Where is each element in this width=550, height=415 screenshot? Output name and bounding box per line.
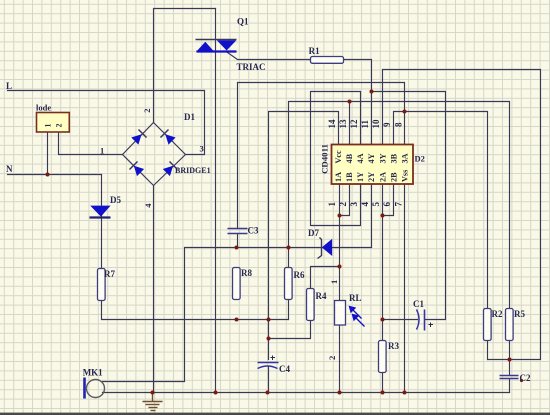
- svg-text:4Y: 4Y: [367, 153, 376, 163]
- wire L line to bridge pin 3: [8, 91, 205, 155]
- capacitor C2: [500, 376, 519, 379]
- bottom window edge: [0, 413, 550, 415]
- wire pin 14 over and down to C4: [269, 112, 339, 360]
- wire C3 bottom to sound junction: [237, 234, 239, 248]
- wire R5 bottom lead: [509, 341, 511, 360]
- microphone MK1: [85, 378, 105, 399]
- wire pin 10 up over right side down to R2 R5 bottoms: [383, 70, 541, 360]
- svg-text:11: 11: [360, 119, 370, 128]
- wire pin 2 tie to pin 1: [340, 185, 350, 216]
- svg-text:C1: C1: [413, 299, 424, 309]
- wire R1 right to pin 11 junction: [344, 60, 372, 92]
- svg-text:7: 7: [393, 202, 403, 207]
- wire triac gate to R1: [228, 53, 311, 60]
- wire pin 3 to pin 12 loop: [311, 92, 361, 226]
- svg-text:R1: R1: [309, 46, 320, 56]
- transistor Q1 triac: [196, 40, 237, 53]
- wire R6 top lead to D7 junction: [288, 248, 290, 268]
- wire pin 7 down to bus: [404, 185, 406, 393]
- wire lode pin2 to bridge pin 1: [59, 132, 123, 155]
- svg-text:3: 3: [200, 144, 204, 154]
- wire N line: [8, 174, 102, 176]
- resistor R5: [506, 309, 514, 341]
- svg-text:R5: R5: [514, 309, 525, 319]
- svg-text:L: L: [6, 81, 12, 91]
- op-amp U1 CD4011 box: [332, 145, 414, 185]
- diode D7 zener: [318, 238, 333, 259]
- wire R7 bottom to Vcc rail: [102, 301, 289, 320]
- wire mic bottom to bus: [102, 392, 104, 394]
- wire pin 1 down to RL top: [339, 185, 341, 301]
- bridge D1 diamond: [123, 123, 186, 186]
- svg-text:4B: 4B: [345, 153, 354, 163]
- svg-text:14: 14: [327, 119, 337, 129]
- wire sound line D7 to mic: [103, 248, 372, 382]
- wire pin 13 stub: [349, 102, 351, 145]
- svg-text:R3: R3: [388, 341, 399, 351]
- wire pin 9 to pin 8: [394, 112, 405, 145]
- resistor R6: [285, 268, 293, 300]
- svg-text:4: 4: [360, 202, 370, 207]
- svg-text:6: 6: [382, 202, 392, 207]
- svg-text:R2: R2: [492, 309, 503, 319]
- wire R6 bottom lead: [288, 300, 290, 320]
- svg-text:C4: C4: [279, 364, 290, 374]
- svg-text:4: 4: [143, 203, 153, 208]
- svg-text:D2: D2: [415, 153, 425, 163]
- svg-text:8: 8: [393, 122, 403, 127]
- connector lode: [37, 113, 70, 133]
- svg-text:5: 5: [371, 202, 381, 207]
- wire triac vertical from top wire down to bottom bus: [215, 9, 217, 393]
- wire R3 bottom to bus: [382, 373, 384, 393]
- wire lode pin1 down to N: [47, 132, 49, 175]
- svg-text:Vss: Vss: [401, 170, 410, 182]
- svg-text:12: 12: [349, 119, 359, 129]
- svg-text:BRIDGE1: BRIDGE1: [175, 166, 211, 175]
- diode bridge top-left: [131, 130, 146, 145]
- diode bridge bottom-left: [130, 162, 145, 177]
- diode bridge top-right: [161, 130, 176, 145]
- svg-text:1: 1: [100, 146, 104, 156]
- wire R6 net: junction up over to R5 top: [289, 102, 510, 309]
- wire pin 11 stub: [371, 92, 373, 145]
- wire R4 top tie: [311, 267, 340, 289]
- svg-text:R7: R7: [104, 269, 115, 279]
- svg-text:RL: RL: [349, 293, 362, 303]
- svg-text:3: 3: [349, 202, 359, 207]
- svg-text:C2: C2: [520, 373, 531, 383]
- diode D5: [90, 206, 111, 218]
- svg-text:3Y: 3Y: [378, 153, 387, 163]
- svg-text:10: 10: [371, 119, 381, 129]
- IC pin numbers top: [327, 119, 404, 129]
- svg-text:1B: 1B: [345, 172, 354, 182]
- wire bridge pin4 down to bus: [153, 186, 155, 393]
- svg-text:1Y: 1Y: [356, 172, 365, 182]
- svg-text:R6: R6: [294, 270, 305, 280]
- wire C2 top lead: [509, 360, 511, 375]
- wire pin 8 up to C3 top: [238, 83, 405, 229]
- svg-text:4A: 4A: [356, 153, 365, 163]
- svg-text:2B: 2B: [389, 172, 398, 182]
- svg-text:D1: D1: [184, 112, 195, 122]
- svg-text:D5: D5: [110, 195, 121, 205]
- svg-text:2: 2: [55, 124, 64, 128]
- svg-text:1: 1: [327, 202, 337, 207]
- svg-text:MK1: MK1: [83, 368, 103, 378]
- wire R2 bottom lead: [487, 341, 489, 360]
- resistor R2: [484, 309, 492, 341]
- wire C2 bottom lead to bus end: [509, 380, 511, 393]
- capacitor C4 polarized: [258, 356, 279, 369]
- wire pin 5 down to R3 top: [382, 185, 384, 341]
- wire RL bottom to bus: [339, 325, 341, 393]
- wire pin 6 tie to pin 5: [383, 185, 394, 216]
- wire pin11 net to C1 right plate: [372, 92, 446, 320]
- svg-text:Vcc: Vcc: [334, 150, 343, 164]
- svg-text:2A: 2A: [378, 172, 387, 182]
- svg-text:3B: 3B: [389, 153, 398, 163]
- svg-text:R8: R8: [241, 268, 252, 278]
- svg-text:D7: D7: [308, 228, 319, 238]
- svg-text:1: 1: [44, 124, 53, 128]
- svg-text:2: 2: [142, 109, 152, 113]
- IC pin numbers bottom: [327, 202, 404, 207]
- wire top: bridge pin2 up and over to triac: [154, 9, 216, 123]
- resistor R3: [379, 341, 387, 373]
- svg-text:Q1: Q1: [237, 17, 249, 27]
- wire C4 bottom lead to bus: [268, 367, 270, 393]
- svg-text:C3: C3: [248, 226, 259, 236]
- svg-text:CD4011: CD4011: [320, 144, 330, 174]
- diode bridge bottom-right: [163, 162, 178, 177]
- IC pin names bottom row: [334, 170, 410, 182]
- resistor R1: [311, 57, 344, 64]
- svg-text:2: 2: [338, 202, 348, 207]
- svg-text:R4: R4: [316, 291, 327, 301]
- svg-text:2Y: 2Y: [367, 172, 376, 182]
- wire bottom bus: [103, 392, 510, 394]
- capacitor C1 polarized: [417, 310, 434, 331]
- svg-text:1A: 1A: [334, 172, 343, 182]
- svg-text:TRIAC: TRIAC: [237, 62, 266, 72]
- svg-text:lode: lode: [36, 103, 51, 113]
- svg-text:13: 13: [338, 119, 348, 129]
- wire pin 4 down to D7: [371, 185, 373, 248]
- svg-text:N: N: [6, 164, 13, 174]
- svg-text:1: 1: [329, 280, 339, 284]
- resistor R7: [98, 269, 106, 301]
- resistor R8: [233, 268, 241, 300]
- svg-text:9: 9: [382, 122, 392, 127]
- svg-text:3A: 3A: [401, 153, 410, 163]
- wire D5 branch: N down through D5 to R7: [101, 175, 103, 269]
- wire C1 left lead: [383, 319, 418, 321]
- svg-text:2: 2: [327, 356, 337, 360]
- capacitor C3: [228, 229, 248, 234]
- wire pins 8 9 over to R2 top: [405, 112, 488, 309]
- photoresistor RL: [335, 301, 365, 327]
- ground: [143, 393, 163, 411]
- wire R4 bottom to C4 junction: [269, 321, 311, 339]
- IC pin names top row: [334, 150, 410, 164]
- resistor R4: [307, 289, 315, 321]
